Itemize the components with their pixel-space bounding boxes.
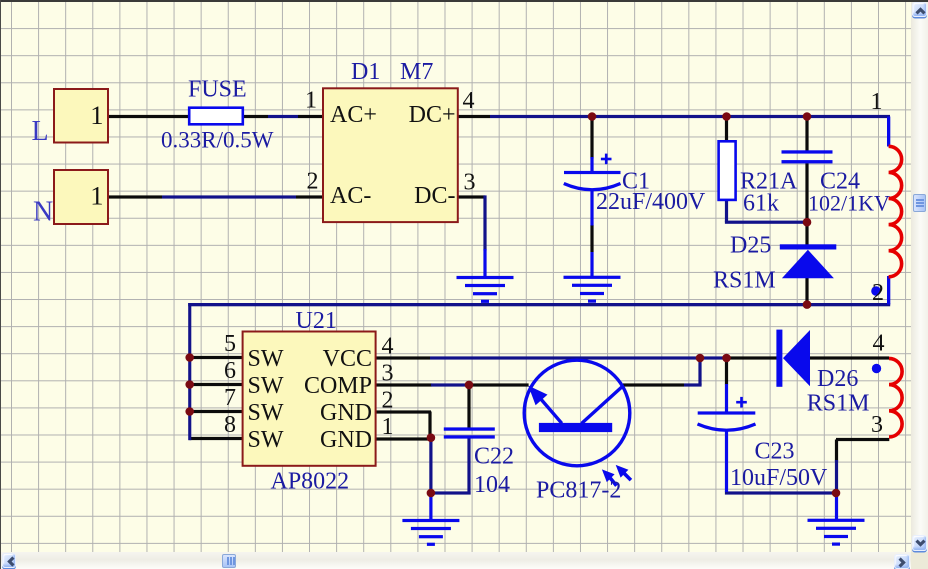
svg-text:GND: GND <box>320 400 372 426</box>
svg-text:5: 5 <box>224 331 236 357</box>
svg-text:D1: D1 <box>351 59 380 85</box>
svg-text:2: 2 <box>382 388 394 414</box>
svg-text:102/1KV: 102/1KV <box>808 191 890 216</box>
svg-text:8: 8 <box>224 412 236 438</box>
svg-text:7: 7 <box>224 385 236 411</box>
svg-text:4: 4 <box>382 334 394 360</box>
svg-text:C22: C22 <box>474 444 514 470</box>
svg-text:COMP: COMP <box>304 373 372 399</box>
svg-text:SW: SW <box>248 400 284 426</box>
svg-text:1: 1 <box>382 414 394 440</box>
svg-text:2: 2 <box>872 280 884 306</box>
svg-text:1: 1 <box>305 88 317 114</box>
svg-text:GND: GND <box>320 427 372 453</box>
svg-text:0.33R/0.5W: 0.33R/0.5W <box>161 128 274 153</box>
svg-text:10uF/50V: 10uF/50V <box>730 465 828 491</box>
svg-text:104: 104 <box>474 472 510 498</box>
svg-text:U21: U21 <box>296 308 337 334</box>
svg-text:AC+: AC+ <box>330 102 377 128</box>
svg-text:SW: SW <box>248 346 284 372</box>
svg-text:SW: SW <box>248 373 284 399</box>
svg-text:2: 2 <box>307 169 319 195</box>
svg-text:RS1M: RS1M <box>713 268 776 294</box>
svg-text:C23: C23 <box>755 439 795 465</box>
svg-text:D25: D25 <box>730 233 771 259</box>
svg-text:3: 3 <box>871 412 883 438</box>
svg-text:1: 1 <box>871 89 883 115</box>
svg-text:6: 6 <box>224 358 236 384</box>
svg-text:1: 1 <box>90 100 103 130</box>
svg-text:FUSE: FUSE <box>188 77 247 103</box>
svg-text:4: 4 <box>873 331 885 357</box>
svg-text:PC817-2: PC817-2 <box>536 478 621 504</box>
svg-text:AC-: AC- <box>330 183 371 209</box>
svg-text:22uF/400V: 22uF/400V <box>596 189 706 215</box>
svg-text:RS1M: RS1M <box>807 391 870 417</box>
svg-text:DC+: DC+ <box>409 102 456 128</box>
svg-text:AP8022: AP8022 <box>271 469 350 495</box>
svg-text:61k: 61k <box>743 191 779 217</box>
svg-text:M7: M7 <box>400 59 433 85</box>
svg-text:DC-: DC- <box>414 183 455 209</box>
svg-text:SW: SW <box>248 427 284 453</box>
svg-text:VCC: VCC <box>323 346 372 372</box>
svg-text:3: 3 <box>464 170 476 196</box>
svg-text:N: N <box>33 197 53 228</box>
svg-text:4: 4 <box>463 88 475 114</box>
svg-text:D26: D26 <box>817 366 858 392</box>
svg-text:1: 1 <box>90 181 103 211</box>
svg-text:3: 3 <box>382 361 394 387</box>
svg-text:L: L <box>32 116 49 147</box>
